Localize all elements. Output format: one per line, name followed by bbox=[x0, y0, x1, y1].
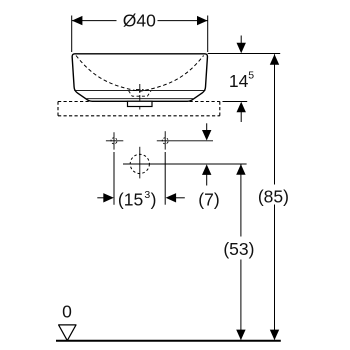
svg-text:(7): (7) bbox=[198, 190, 219, 210]
svg-text:(53): (53) bbox=[223, 239, 254, 259]
svg-text:3: 3 bbox=[144, 189, 150, 201]
svg-text:(15: (15 bbox=[118, 190, 143, 210]
svg-text:5: 5 bbox=[248, 69, 254, 81]
svg-text:(85): (85) bbox=[258, 186, 289, 206]
svg-text:): ) bbox=[151, 190, 157, 210]
svg-text:0: 0 bbox=[62, 302, 72, 322]
svg-text:14: 14 bbox=[229, 71, 249, 91]
svg-text:Ø40: Ø40 bbox=[123, 10, 156, 30]
